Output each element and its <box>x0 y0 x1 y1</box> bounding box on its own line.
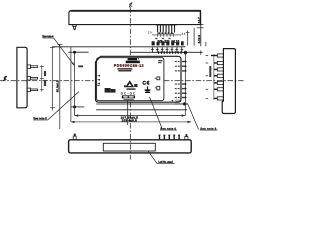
module outline with chamfer <box>96 56 182 102</box>
horizontal centerline <box>0 80 96 82</box>
tiny label corner text <box>158 60 162 61</box>
gray underline below box <box>124 99 134 100</box>
tiny dia text <box>78 65 83 67</box>
rotated micro texts <box>44 71 46 76</box>
pin label texts (two rows) <box>152 41 184 45</box>
top view left mounting stud <box>73 25 77 31</box>
right view pins (7) <box>217 54 223 100</box>
leader D1 from inside view <box>150 97 163 129</box>
right edge pin arrows (7 pairs) <box>174 61 179 99</box>
bottom view body <box>69 140 192 153</box>
dimension line above view <box>52 46 185 48</box>
tall dimension line 2 <box>59 44 61 129</box>
right height dimension line <box>200 11 202 47</box>
top view thick top edge <box>71 10 201 12</box>
extension vertical x=74.6 <box>74 52 76 115</box>
spec text lines <box>117 68 132 70</box>
rotated small text near pins <box>209 66 211 77</box>
bottom view pins (5) <box>159 135 181 140</box>
tiny marks bottom right inside view <box>172 100 174 101</box>
centerline symbol top <box>129 2 132 7</box>
pin marks (comb) above view top edge <box>152 47 181 52</box>
datum line bottom-left with dot <box>71 106 85 108</box>
svg-text:2.0: 2.0 <box>148 30 152 34</box>
bottom view left stud <box>74 134 76 137</box>
datum line top-left with dot <box>68 51 88 53</box>
datum line bottom-right with dot <box>175 103 188 105</box>
pin spacing dimension line under pins <box>152 33 181 37</box>
svg-text:103.4±0.5: 103.4±0.5 <box>122 118 138 122</box>
pin tip dimension line <box>41 65 43 92</box>
pin pitch texts row <box>157 40 179 44</box>
svg-text:C€: C€ <box>142 81 149 87</box>
svg-text:DC-DC: DC-DC <box>121 92 136 96</box>
leader to label recess <box>148 151 157 163</box>
svg-text:PDS600C80-12: PDS600C80-12 <box>114 64 144 68</box>
label outline <box>97 58 164 101</box>
top view body <box>69 10 200 24</box>
dim line L4 with arrows <box>71 121 191 123</box>
bottom view label recess <box>103 143 155 151</box>
left view pins (3) <box>27 65 38 92</box>
leader to stud <box>54 38 74 65</box>
extension line 2 <box>193 28 195 46</box>
cross tick on datum right <box>200 50 202 54</box>
top view right pins <box>158 25 175 33</box>
dim line L3 with arrows <box>75 115 186 117</box>
brand logo rows <box>128 58 137 60</box>
bottom view right stud <box>186 134 188 137</box>
black label box <box>122 95 135 98</box>
left view body <box>17 47 27 108</box>
vertical dim line x=185.3 with arrows <box>184 53 186 116</box>
pin knobs on datum line <box>158 51 182 53</box>
tall dimension line 1 <box>51 47 53 111</box>
leader D2 from datum dot <box>188 104 199 129</box>
left edge arrows <box>97 75 100 86</box>
cert bracket boxes <box>157 77 160 80</box>
UL triangle logo <box>125 80 134 87</box>
svg-text:5.1±.3: 5.1±.3 <box>197 35 201 44</box>
svg-text:50.8±0.5: 50.8±0.5 <box>56 80 60 92</box>
vertical centerline <box>129 7 131 56</box>
extension vertical x=70.9 <box>70 47 72 122</box>
datum line top-right with dot <box>131 51 203 53</box>
micro ticks left of pins <box>206 55 209 99</box>
svg-text:2.6: 2.6 <box>182 32 186 36</box>
svg-text:12.7: 12.7 <box>197 17 201 23</box>
right view body <box>222 49 235 114</box>
centerline symbol left <box>3 76 6 81</box>
dim line L1 <box>96 103 188 105</box>
pin tips line <box>213 54 215 100</box>
leader from label box down <box>127 101 129 125</box>
extension line right of pins <box>187 30 189 45</box>
small tick <box>205 42 207 46</box>
chalice icon <box>147 86 149 89</box>
dim line L2 <box>96 109 187 111</box>
